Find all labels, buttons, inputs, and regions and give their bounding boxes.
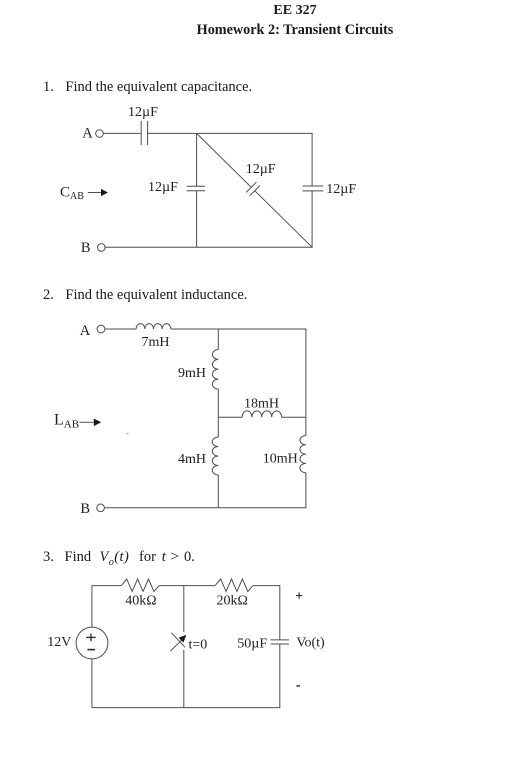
switch SW t=0 — [170, 633, 186, 651]
node B terminal (L circuit) — [97, 504, 105, 512]
wire bottom (C circuit) — [92, 707, 280, 709]
wire middle vertical bottom — [217, 475, 219, 508]
inductor L4 4mH — [212, 437, 218, 475]
wire middle vertical mid — [217, 389, 219, 437]
svg-text:Vo(t): Vo(t) — [296, 635, 325, 650]
wire C1 to top-right — [148, 132, 313, 134]
title line 1 — [60, 3, 530, 19]
wire right vertical bottom — [305, 473, 307, 508]
wire switch upper — [183, 586, 185, 632]
svg-text:CAB: CAB — [60, 185, 84, 203]
svg-text:12µF: 12µF — [148, 180, 178, 195]
svg-text:12µF: 12µF — [246, 162, 276, 177]
heading problem 2 — [43, 287, 247, 304]
wire switch lower — [183, 650, 185, 708]
node A terminal — [96, 130, 104, 138]
wire right vertical upper — [311, 133, 313, 186]
wire diagonal lower — [255, 191, 312, 248]
label minus inside source — [88, 649, 96, 651]
wire bottom B (L circuit) — [105, 507, 307, 509]
svg-text:LAB: LAB — [54, 411, 79, 430]
wire middle horizontal right — [282, 416, 306, 418]
svg-text:B: B — [81, 240, 91, 256]
label plus inside source — [86, 634, 96, 642]
wire right vertical upper (C circuit) — [279, 586, 281, 640]
wire source lower — [91, 659, 93, 708]
node B terminal — [98, 244, 106, 252]
wire R2 to top-right — [253, 585, 280, 587]
wire right vertical lower — [311, 191, 313, 247]
wire right vertical top — [305, 329, 307, 436]
inductor L3 18mH — [242, 411, 282, 417]
wire R1 to R2 — [159, 585, 215, 587]
capacitor C4 12uF (right) — [303, 186, 324, 191]
svg-text:18mH: 18mH — [244, 397, 279, 412]
voltage source V1 12V — [76, 627, 108, 659]
svg-text:B: B — [80, 501, 90, 517]
title line 2 — [60, 22, 530, 39]
svg-text:40kΩ: 40kΩ — [125, 594, 156, 609]
wire A to C1 — [104, 132, 141, 134]
capacitor C5 50uF — [271, 640, 289, 644]
svg-text:A: A — [82, 126, 93, 142]
label minus (output) — [296, 685, 300, 687]
wire middle vertical upper — [196, 133, 198, 186]
svg-text:10mH: 10mH — [263, 451, 298, 466]
heading problem 3 — [0, 548, 1, 550]
label plus (output) — [296, 592, 302, 598]
inductor L1 7mH — [136, 324, 171, 329]
svg-text:t=0: t=0 — [189, 638, 208, 653]
svg-text:20kΩ: 20kΩ — [217, 594, 248, 609]
wire middle vertical top — [217, 329, 219, 350]
svg-text:A: A — [80, 323, 91, 339]
svg-text:7mH: 7mH — [142, 335, 170, 350]
capacitor C3 12uF (diagonal) — [246, 182, 260, 196]
svg-text:12µF: 12µF — [128, 105, 158, 120]
wire A to L1 — [105, 328, 136, 330]
capacitor C1 12uF (series, top) — [141, 121, 147, 145]
capacitor C2 12uF (middle) — [187, 186, 206, 191]
wire middle horizontal left — [218, 416, 242, 418]
wire source upper — [91, 586, 93, 628]
wire right vertical lower (C circuit) — [279, 644, 281, 708]
node A terminal (L circuit) — [97, 325, 105, 333]
inductor L2 9mH — [212, 350, 218, 390]
arrow LAB — [79, 419, 101, 427]
svg-text:12µF: 12µF — [326, 182, 356, 197]
resistor R1 40k — [121, 579, 159, 591]
svg-text:4mH: 4mH — [178, 452, 206, 467]
wire middle vertical lower — [196, 191, 198, 248]
wire bottom B — [105, 246, 312, 248]
svg-text:9mH: 9mH — [178, 366, 206, 381]
wire top left — [92, 585, 121, 587]
svg-text:50µF: 50µF — [237, 636, 267, 651]
wire L1 to top-right — [171, 328, 307, 330]
arrow CAB — [88, 189, 108, 196]
stray faint dot — [126, 433, 129, 435]
svg-text:12V: 12V — [47, 635, 71, 650]
inductor L5 10mH — [300, 436, 306, 473]
wire diagonal upper — [197, 133, 252, 187]
heading problem 1 — [43, 79, 252, 96]
resistor R2 20k — [215, 579, 253, 591]
